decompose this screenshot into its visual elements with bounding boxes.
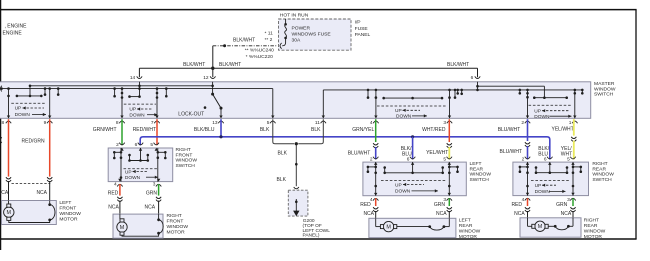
svg-text:M: M [538,224,543,230]
svg-text:30A: 30A [292,37,301,43]
svg-text:NCA: NCA [145,205,156,211]
svg-text:BLU/WHT: BLU/WHT [498,127,521,133]
svg-text:, ENGINE: , ENGINE [5,24,28,30]
svg-text:WINDOW: WINDOW [167,224,189,230]
svg-text:** 2: ** 2 [265,37,273,43]
svg-text:4: 4 [114,182,117,188]
svg-text:WINDOW: WINDOW [592,172,614,178]
svg-text:12: 12 [203,75,209,81]
svg-text:DOWN: DOWN [125,175,141,181]
svg-text:FRONT: FRONT [59,205,76,211]
svg-text:FRONT: FRONT [167,218,184,224]
svg-text:5: 5 [150,142,153,148]
svg-text:WINDOW: WINDOW [176,158,198,164]
svg-text:RED: RED [511,202,522,208]
svg-text:PANEL: PANEL [355,32,371,38]
svg-text:6: 6 [407,156,410,162]
svg-text:* %%UC220: * %%UC220 [246,54,273,60]
svg-text:LEFT: LEFT [459,217,471,223]
svg-text:DOWN: DOWN [15,112,31,118]
svg-text:YEL/WHT: YEL/WHT [552,127,574,133]
svg-text:RIGHT: RIGHT [167,213,182,219]
svg-text:BLU/WHT: BLU/WHT [500,149,523,155]
svg-text:WHT/RED: WHT/RED [422,127,446,133]
svg-text:RED/WHT: RED/WHT [133,127,156,133]
svg-text:9: 9 [44,120,47,126]
svg-text:MASTER: MASTER [594,81,615,87]
svg-text:REAR: REAR [470,166,484,172]
svg-text:BLK: BLK [278,151,288,157]
svg-text:2: 2 [522,156,525,162]
svg-text:2: 2 [521,120,524,126]
svg-text:M: M [7,210,12,216]
svg-text:BLK/WHT: BLK/WHT [183,62,205,68]
svg-text:5: 5 [267,120,270,126]
svg-text:UP: UP [129,107,136,113]
svg-text:4: 4 [522,197,525,203]
svg-text:MOTOR: MOTOR [59,216,78,222]
svg-text:BLK: BLK [260,127,270,133]
svg-text:POWER: POWER [292,25,311,31]
svg-text:NCA: NCA [0,190,9,196]
svg-text:REAR: REAR [584,223,598,229]
svg-text:6: 6 [544,156,547,162]
svg-text:ENGINE: ENGINE [3,31,23,37]
svg-text:BLK/WHT: BLK/WHT [219,62,241,68]
svg-text:NCA: NCA [561,211,572,217]
svg-text:NCA: NCA [108,205,119,211]
svg-text:UP: UP [15,106,22,112]
svg-text:UP: UP [534,108,541,114]
svg-text:DOWN: DOWN [534,114,550,120]
svg-text:2: 2 [116,142,119,148]
svg-text:3: 3 [153,182,156,188]
svg-text:14: 14 [130,75,136,81]
svg-text:WINDOW: WINDOW [59,211,81,217]
svg-text:13: 13 [212,120,218,126]
svg-text:UP: UP [125,169,132,175]
svg-text:I/P: I/P [355,20,361,26]
svg-text:4: 4 [370,120,373,126]
svg-text:5: 5 [567,156,570,162]
svg-text:WINDOW: WINDOW [584,228,606,234]
svg-text:LEFT: LEFT [59,200,71,206]
svg-text:RED: RED [108,190,119,196]
svg-text:MOTOR: MOTOR [459,234,478,240]
svg-text:REAR: REAR [592,166,606,172]
svg-text:BLU/WHT: BLU/WHT [348,150,371,156]
svg-text:SWITCH: SWITCH [176,163,196,169]
svg-text:DOWN: DOWN [535,189,551,195]
svg-text:LOCK-OUT: LOCK-OUT [178,111,204,117]
svg-text:BLK/WHT: BLK/WHT [233,37,255,43]
svg-text:RED/GRN: RED/GRN [22,139,45,145]
svg-text:M: M [386,225,391,231]
svg-text:5: 5 [443,156,446,162]
svg-text:SWITCH: SWITCH [594,92,614,98]
svg-text:BLK/BLU: BLK/BLU [194,127,215,133]
svg-text:3: 3 [567,197,570,203]
svg-text:GRN: GRN [146,190,158,196]
svg-text:WINDOW: WINDOW [459,228,481,234]
svg-text:1: 1 [569,120,572,126]
svg-text:RED: RED [360,202,371,208]
svg-text:SWITCH: SWITCH [592,177,612,183]
svg-text:3: 3 [443,120,446,126]
svg-text:** %%UC240: ** %%UC240 [245,48,274,54]
svg-text:HOT IN RUN: HOT IN RUN [280,13,309,19]
svg-text:NCA: NCA [436,211,447,217]
svg-text:GRN/YEL: GRN/YEL [352,127,374,133]
svg-text:WINDOW: WINDOW [594,86,616,92]
svg-text:LEFT: LEFT [470,161,482,167]
svg-text:FUSE: FUSE [355,26,369,32]
svg-text:DOWN: DOWN [395,189,411,195]
svg-text:PANEL): PANEL) [303,233,320,239]
svg-text:BLK: BLK [277,177,287,183]
svg-text:11: 11 [315,120,320,126]
svg-text:RIGHT: RIGHT [592,161,607,167]
svg-text:WINDOWS FUSE: WINDOWS FUSE [292,31,332,37]
svg-text:UP: UP [535,183,542,189]
svg-text:DOWN: DOWN [396,114,412,120]
svg-text:RIGHT: RIGHT [584,217,599,223]
svg-text:6: 6 [471,75,474,81]
svg-text:MOTOR: MOTOR [584,234,603,240]
svg-text:NCA: NCA [36,190,47,196]
svg-text:8: 8 [116,120,119,126]
svg-text:BLK/WHT: BLK/WHT [447,62,469,68]
svg-text:MOTOR: MOTOR [167,229,186,235]
svg-text:UP: UP [395,108,402,114]
svg-text:FRONT: FRONT [176,152,193,158]
svg-text:DOWN: DOWN [129,112,145,118]
svg-text:GRN/WHT: GRN/WHT [93,127,117,133]
svg-text:8: 8 [2,120,5,126]
svg-text:NCA: NCA [363,211,374,217]
svg-text:BLK: BLK [311,127,321,133]
svg-text:SWITCH: SWITCH [470,177,490,183]
svg-text:UP: UP [395,182,402,188]
svg-text:GRN: GRN [556,202,568,208]
svg-text:REAR: REAR [459,223,473,229]
svg-text:NCA: NCA [514,211,525,217]
svg-text:6: 6 [135,142,138,148]
svg-text:RIGHT: RIGHT [176,147,191,153]
svg-text:M: M [120,225,125,231]
svg-text:WINDOW: WINDOW [470,172,492,178]
svg-text:YEL/WHT: YEL/WHT [426,150,448,156]
svg-text:GRN: GRN [434,202,446,208]
svg-text:* 11: * 11 [264,30,273,36]
svg-text:7: 7 [151,120,154,126]
svg-text:2: 2 [370,156,373,162]
